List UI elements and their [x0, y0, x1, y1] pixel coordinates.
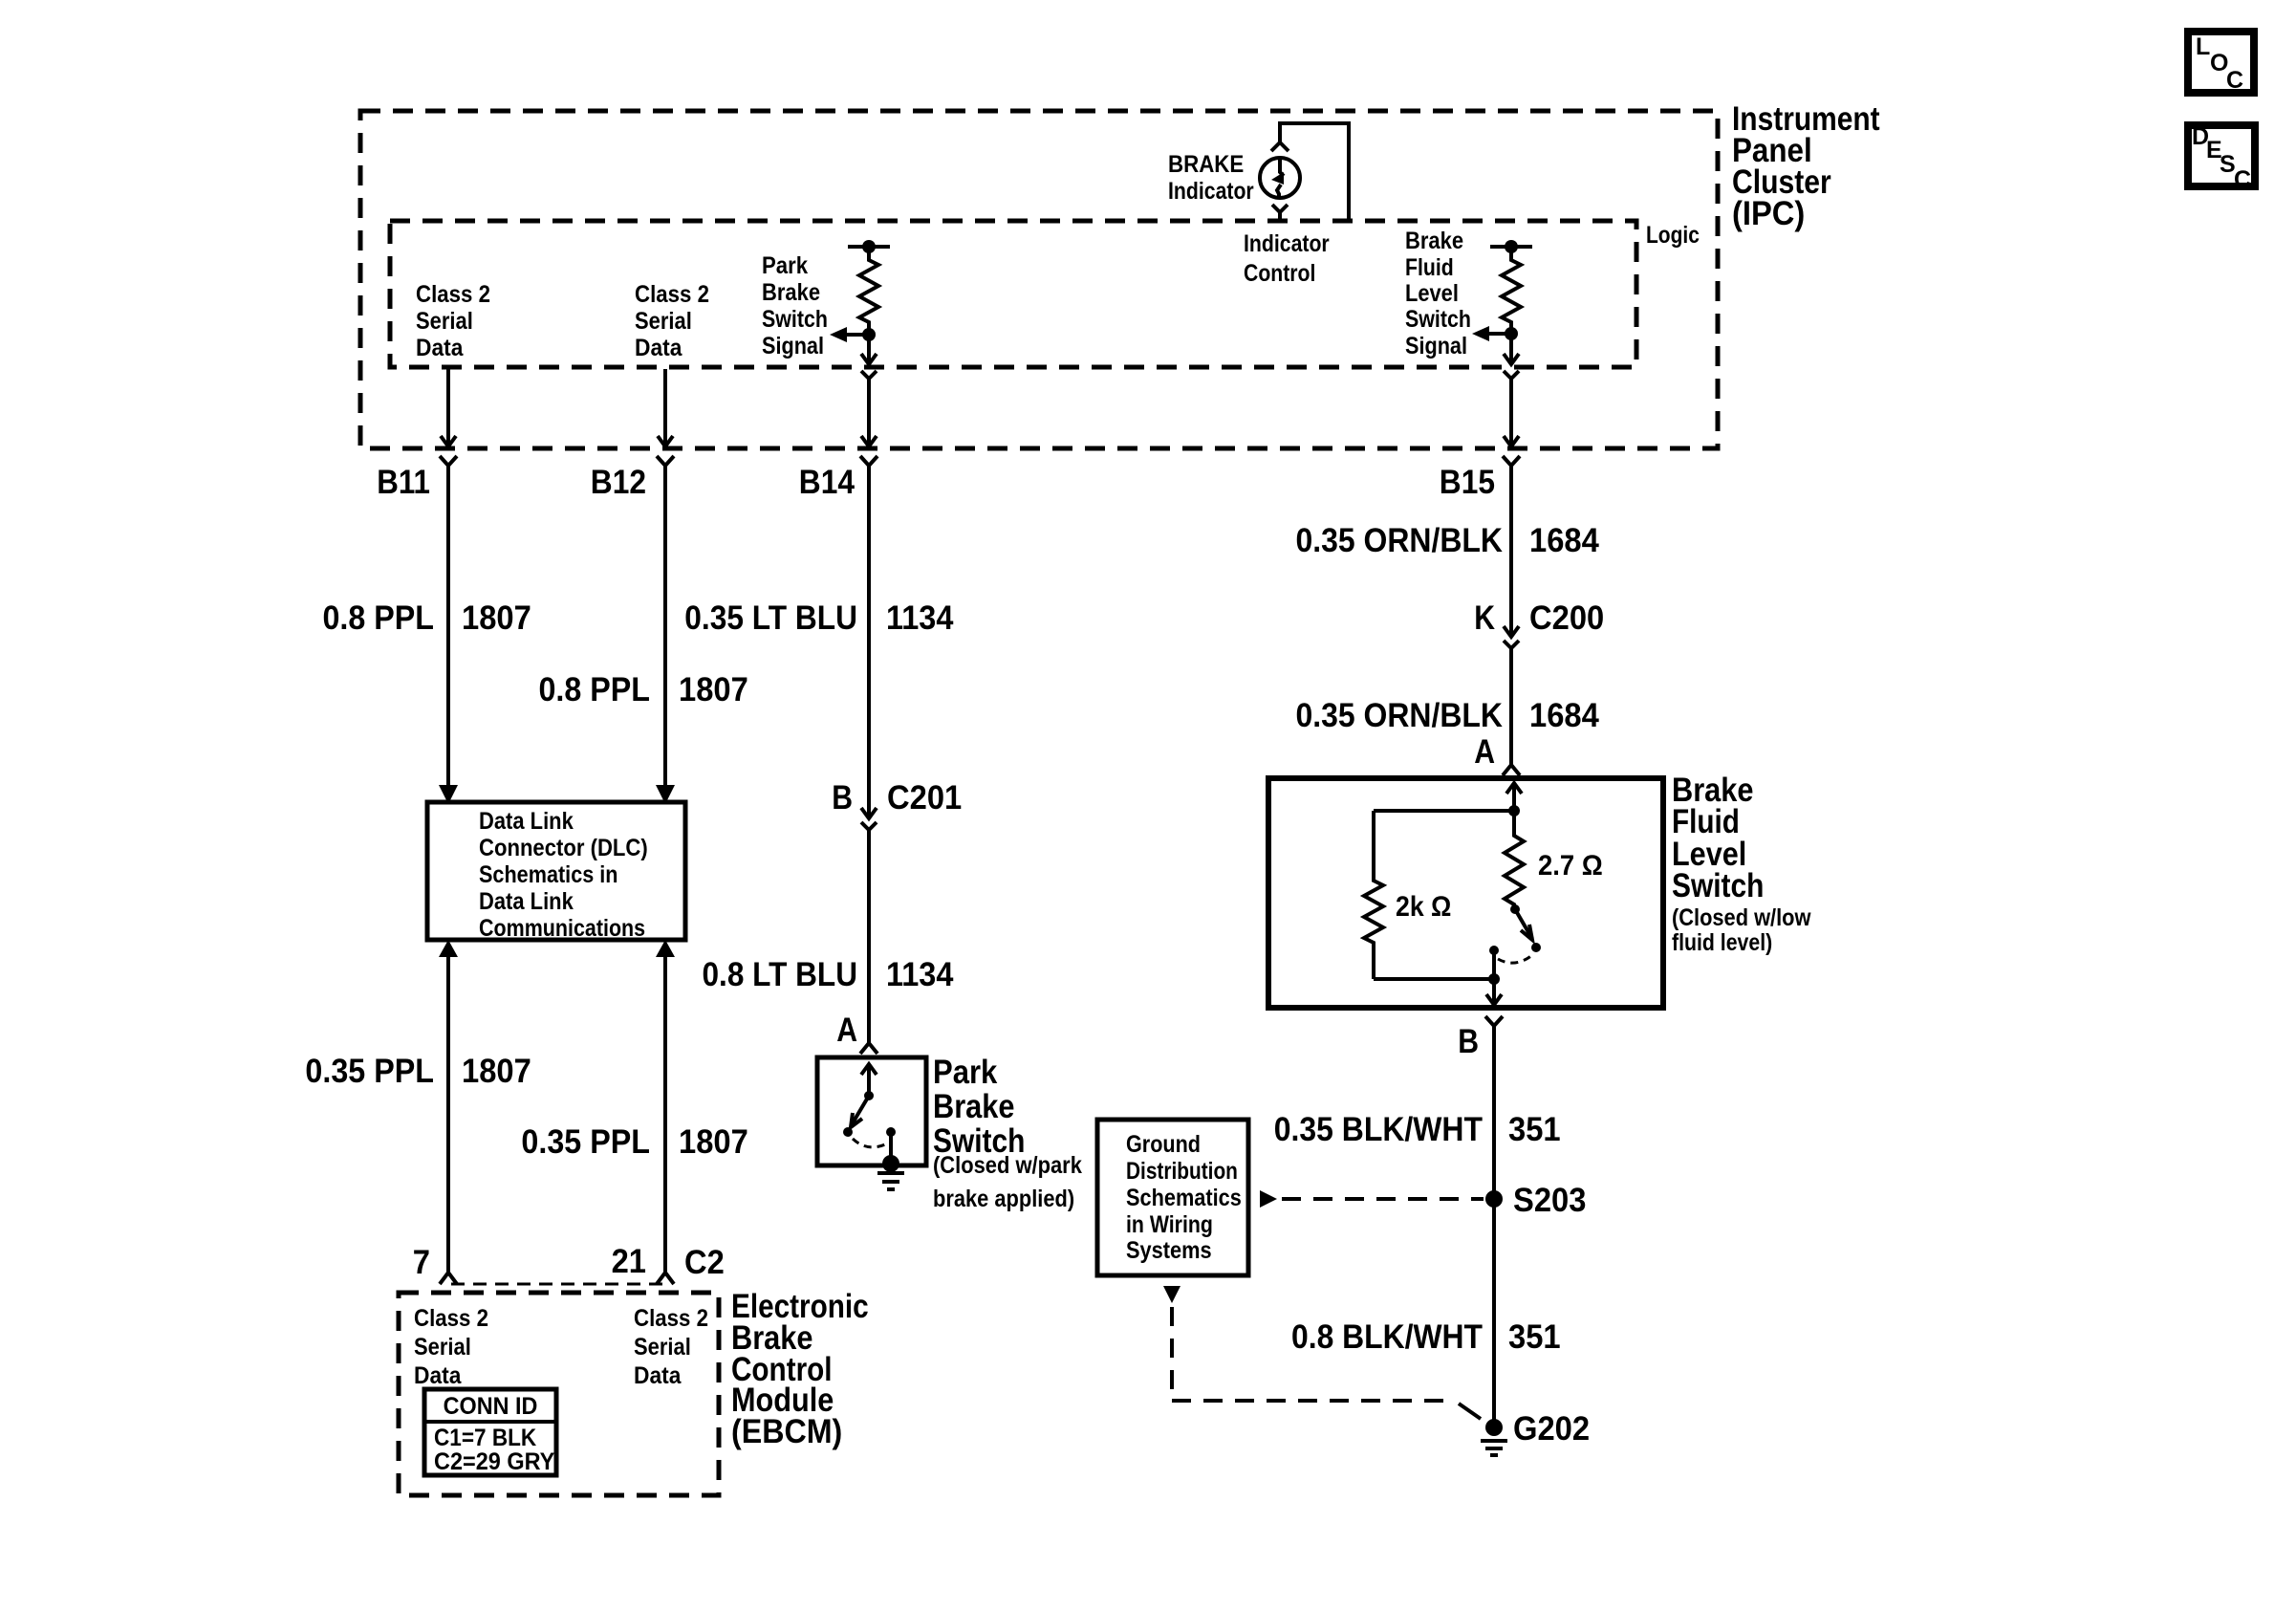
svg-text:0.35 LT BLU: 0.35 LT BLU: [684, 599, 857, 637]
svg-text:0.8 PPL: 0.8 PPL: [323, 599, 435, 637]
svg-text:Systems: Systems: [1126, 1237, 1212, 1264]
svg-text:1807: 1807: [462, 599, 531, 637]
BFLS top rail wire: [1374, 809, 1514, 813]
svg-text:Brake: Brake: [762, 279, 820, 306]
DLC box label: [479, 808, 648, 942]
svg-text:L: L: [2196, 33, 2210, 60]
wire label 0.35 BLK/WHT 351: [1274, 1111, 1561, 1148]
svg-text:C200: C200: [1529, 599, 1604, 637]
svg-text:Serial: Serial: [635, 308, 692, 335]
Park Brake Switch name label: [933, 1054, 1082, 1212]
indicator lamp bottom terminal chevron: [1272, 205, 1288, 221]
wire B11 inside IPC with arrow: [441, 369, 456, 446]
EBCM dashed box (Electronic Brake Control Module): [399, 1293, 719, 1495]
svg-text:Logic: Logic: [1646, 222, 1700, 249]
EBCM terminal 7 chevron: [440, 1273, 457, 1284]
svg-text:351: 351: [1508, 1111, 1561, 1148]
svg-text:Park: Park: [933, 1054, 998, 1091]
svg-text:fluid level): fluid level): [1672, 929, 1772, 956]
svg-text:Data: Data: [416, 335, 464, 361]
svg-text:0.35 PPL: 0.35 PPL: [521, 1123, 650, 1161]
Park Brake Switch Signal label: [762, 252, 828, 359]
svg-text:in Wiring: in Wiring: [1126, 1211, 1213, 1238]
svg-text:S203: S203: [1513, 1182, 1586, 1219]
splice S203: [1485, 1190, 1503, 1208]
Brake Fluid Level Switch name label: [1672, 772, 1811, 956]
BRAKE Indicator label: [1168, 151, 1254, 205]
svg-text:BRAKE: BRAKE: [1168, 151, 1244, 178]
svg-text:C201: C201: [887, 779, 962, 816]
svg-text:CONN ID: CONN ID: [444, 1393, 538, 1420]
wire lamp loop to logic box: [1280, 123, 1349, 219]
svg-text:Class 2: Class 2: [634, 1305, 708, 1332]
svg-text:G202: G202: [1513, 1410, 1590, 1448]
svg-text:Switch: Switch: [1672, 867, 1764, 904]
svg-text:C2: C2: [684, 1244, 725, 1281]
dashed reference wire diagonal at G202: [1459, 1404, 1481, 1419]
BFLS travel arc (dashed): [1498, 955, 1532, 963]
svg-text:A: A: [836, 1012, 857, 1049]
resistor 2k left branch: [1364, 811, 1383, 979]
svg-text:351: 351: [1508, 1318, 1561, 1356]
svg-text:Park: Park: [762, 252, 808, 279]
wire C200 to brake fluid level switch: [1509, 648, 1513, 765]
dashed reference wire down: [1170, 1307, 1174, 1401]
svg-text:B: B: [832, 779, 853, 816]
svg-text:Connector (DLC): Connector (DLC): [479, 835, 648, 861]
svg-text:A: A: [1474, 733, 1495, 771]
ground G202 dot: [1485, 1419, 1503, 1436]
BFLS input wire with up arrow: [1506, 783, 1522, 816]
svg-text:0.35 ORN/BLK: 0.35 ORN/BLK: [1296, 697, 1504, 734]
svg-text:C: C: [2234, 166, 2251, 193]
svg-text:C2=29 GRY: C2=29 GRY: [434, 1448, 555, 1475]
svg-text:B11: B11: [377, 464, 430, 501]
svg-text:0.8 LT BLU: 0.8 LT BLU: [703, 956, 858, 993]
Ground Distribution label: [1126, 1131, 1242, 1264]
arrowhead up into DLC bottom (B12): [656, 940, 675, 957]
svg-text:Class 2: Class 2: [416, 281, 490, 308]
wire BFLS to S203: [1492, 1026, 1496, 1199]
wire B15 inside IPC with terminal chevron and arrow: [1504, 371, 1519, 446]
ground G202 symbol: [1481, 1441, 1507, 1455]
inline connector C201 (arrow + chevron): [861, 808, 877, 830]
svg-text:0.35 PPL: 0.35 PPL: [305, 1053, 434, 1090]
wire DLC to EBCM pin 7: [446, 957, 450, 1273]
BFLS movable contact arm: [1510, 904, 1541, 952]
wire B15 logic exit with open arrow: [1504, 334, 1519, 364]
svg-text:Distribution: Distribution: [1126, 1158, 1238, 1185]
BFLS terminal B chevron: [1485, 1016, 1503, 1026]
reference arrow below box: [1163, 1286, 1180, 1303]
svg-text:Switch: Switch: [1405, 306, 1471, 333]
svg-text:0.35 BLK/WHT: 0.35 BLK/WHT: [1274, 1111, 1483, 1148]
DESC reference box: [2188, 123, 2255, 193]
wire label 0.35 LT BLU 1134: [684, 599, 954, 637]
svg-text:C1=7 BLK: C1=7 BLK: [434, 1425, 536, 1451]
wire label 0.35 PPL 1807 (pin 7): [305, 1053, 531, 1090]
ground symbol under park brake switch: [877, 1173, 904, 1189]
svg-text:Brake: Brake: [933, 1088, 1015, 1125]
park brake switch signal tap arrow: [830, 327, 876, 342]
logic sub-box (dashed): [390, 221, 1636, 367]
svg-text:1684: 1684: [1529, 522, 1599, 559]
Brake Fluid Level Switch box: [1268, 778, 1663, 1008]
svg-text:Indicator: Indicator: [1168, 178, 1254, 205]
wire B15 to C200: [1509, 466, 1513, 637]
svg-text:Data: Data: [414, 1362, 462, 1389]
svg-text:1684: 1684: [1529, 697, 1599, 734]
terminal B15 chevron: [1503, 456, 1520, 466]
svg-text:Data: Data: [635, 335, 682, 361]
svg-text:B15: B15: [1440, 464, 1495, 501]
dashed reference wire right to G202: [1172, 1399, 1453, 1403]
svg-text:Serial: Serial: [414, 1334, 471, 1361]
svg-text:B: B: [1458, 1023, 1479, 1060]
EBCM terminal 21 chevron: [657, 1273, 674, 1284]
wire C201 to park brake switch: [867, 830, 871, 1043]
svg-text:brake applied): brake applied): [933, 1186, 1074, 1212]
Class 2 Serial Data label (B12 pin): [635, 281, 709, 361]
svg-text:Ground: Ground: [1126, 1131, 1201, 1158]
svg-text:K: K: [1474, 599, 1495, 637]
svg-text:Switch: Switch: [762, 306, 828, 333]
arrowhead into DLC (B12): [656, 785, 675, 804]
wire label 0.8 PPL 1807 (B12): [539, 671, 748, 708]
terminal B14 chevron: [860, 456, 877, 466]
IPC module dashed box (Instrument Panel Cluster): [360, 111, 1718, 448]
wire label 0.8 LT BLU 1134: [703, 956, 954, 993]
svg-text:(IPC): (IPC): [1732, 195, 1805, 232]
terminal B11 chevron: [440, 456, 457, 466]
svg-text:(Closed w/low: (Closed w/low: [1672, 904, 1811, 931]
LOC reference box: [2188, 32, 2254, 94]
svg-text:B14: B14: [799, 464, 856, 501]
brake fluid level switch terminal A chevron: [1503, 765, 1520, 775]
inline connector C200 (arrow + chevron): [1504, 626, 1519, 648]
svg-text:Control: Control: [1244, 260, 1315, 287]
EBCM connector face (thin dashed line): [451, 1283, 663, 1286]
svg-text:Signal: Signal: [1405, 333, 1467, 359]
svg-text:(Closed w/park: (Closed w/park: [933, 1152, 1082, 1179]
svg-text:B12: B12: [591, 464, 646, 501]
svg-text:0.35 ORN/BLK: 0.35 ORN/BLK: [1296, 522, 1504, 559]
wire B14 inside IPC with terminal chevron and arrow: [861, 371, 877, 446]
resistor R-park (pull-up in logic): [848, 240, 890, 334]
wire B11 to DLC: [446, 466, 450, 786]
arrowhead up into DLC bottom (B11): [439, 940, 458, 957]
arrowhead into DLC (B11): [439, 785, 458, 804]
wire label 0.8 BLK/WHT 351: [1291, 1318, 1561, 1356]
Class 2 Serial Data label (B11 pin): [416, 281, 490, 361]
CONN ID table box: [424, 1389, 556, 1475]
BFLS fixed contact: [1489, 946, 1499, 979]
Ground Distribution reference box: [1097, 1120, 1248, 1275]
Brake Fluid Level Switch Signal label: [1405, 228, 1471, 359]
brake fluid switch signal tap arrow: [1472, 326, 1518, 341]
svg-text:Signal: Signal: [762, 333, 824, 359]
svg-text:Schematics: Schematics: [1126, 1185, 1242, 1211]
svg-text:21: 21: [612, 1243, 646, 1280]
svg-text:7: 7: [413, 1244, 430, 1281]
indicator lamp top terminal chevron: [1271, 142, 1289, 151]
svg-text:Data Link: Data Link: [479, 808, 574, 835]
wire B14 to C201: [867, 466, 871, 818]
park brake switch travel arc (dashed): [853, 1139, 885, 1147]
wire label 0.35 ORN/BLK 1684 (lower): [1296, 697, 1600, 734]
svg-text:Serial: Serial: [416, 308, 473, 335]
svg-text:0.8 PPL: 0.8 PPL: [539, 671, 651, 708]
resistor R-fluid (pull-up in logic): [1490, 240, 1532, 333]
Indicator Control label: [1244, 230, 1330, 287]
BFLS output wire with down arrow: [1486, 979, 1502, 1005]
park brake switch terminal A chevron: [860, 1043, 877, 1054]
wire B12 to DLC: [663, 466, 667, 786]
dashed reference wire to S203: [1282, 1197, 1484, 1201]
BFLS bottom rail wire: [1374, 973, 1500, 985]
svg-text:1807: 1807: [679, 671, 748, 708]
Class 2 Serial Data label (EBCM pin 21): [634, 1305, 708, 1389]
svg-text:Fluid: Fluid: [1405, 254, 1454, 281]
svg-text:1134: 1134: [886, 599, 954, 637]
EBCM name label: [731, 1288, 869, 1450]
svg-text:Schematics in: Schematics in: [479, 861, 618, 888]
Park Brake Switch box: [817, 1057, 926, 1165]
svg-text:1807: 1807: [462, 1053, 531, 1090]
park brake switch contact arm (movable): [843, 1064, 877, 1137]
svg-text:Data Link: Data Link: [479, 888, 574, 915]
wire label 0.35 ORN/BLK 1684 (upper): [1296, 522, 1600, 559]
wire B14 logic exit with open arrow: [861, 335, 877, 364]
reference arrow to S203: [1260, 1190, 1277, 1208]
wire B12 inside IPC with arrow: [658, 369, 673, 446]
svg-text:2.7 Ω: 2.7 Ω: [1538, 850, 1603, 882]
svg-text:Serial: Serial: [634, 1334, 691, 1361]
svg-text:1807: 1807: [679, 1123, 748, 1161]
svg-text:1134: 1134: [886, 956, 954, 993]
wire label 0.8 PPL 1807 (B11): [323, 599, 531, 637]
svg-text:C: C: [2226, 67, 2243, 94]
svg-text:0.8 BLK/WHT: 0.8 BLK/WHT: [1291, 1318, 1483, 1356]
wire S203 to G202: [1492, 1199, 1496, 1427]
Class 2 Serial Data label (EBCM pin 7): [414, 1305, 488, 1389]
park brake switch fixed contact to ground: [882, 1127, 899, 1172]
wire DLC to EBCM pin 21: [663, 957, 667, 1273]
indicator lamp BRAKE: [1260, 158, 1300, 198]
wire label 0.35 PPL 1807 (pin 21): [521, 1123, 747, 1161]
svg-text:Class 2: Class 2: [414, 1305, 488, 1332]
DLC box (Data Link Connector): [427, 802, 685, 940]
svg-text:Communications: Communications: [479, 915, 645, 942]
wire lamp top stub: [1278, 121, 1282, 142]
svg-text:Data: Data: [634, 1362, 682, 1389]
svg-text:Class 2: Class 2: [635, 281, 709, 308]
terminal B12 chevron: [657, 456, 674, 466]
svg-text:Brake: Brake: [1405, 228, 1463, 254]
svg-text:2k Ω: 2k Ω: [1396, 891, 1451, 923]
svg-text:(EBCM): (EBCM): [731, 1413, 842, 1450]
resistor 2.7 right branch: [1505, 811, 1524, 909]
svg-text:Level: Level: [1405, 280, 1459, 307]
IPC name label: [1732, 100, 1880, 232]
svg-text:Indicator: Indicator: [1244, 230, 1330, 257]
